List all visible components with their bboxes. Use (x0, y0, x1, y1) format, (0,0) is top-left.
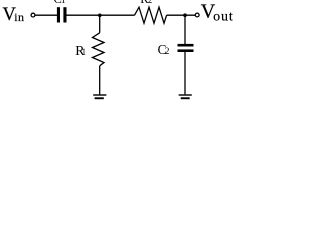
terminal Vin (31, 13, 35, 17)
terminal Vout (195, 13, 199, 17)
wire R2 to Vout (167, 14, 196, 16)
svg-text:2: 2 (165, 46, 170, 56)
resistor R2 (135, 7, 167, 23)
svg-text:1: 1 (82, 47, 87, 57)
wire C2 to ground (184, 52, 186, 94)
wire Vin to C1 (35, 14, 57, 16)
wire R1 to ground (99, 66, 101, 95)
svg-text:1: 1 (61, 0, 66, 5)
ground (left) (93, 94, 106, 95)
node B junction (183, 13, 187, 17)
svg-text:in: in (14, 10, 24, 24)
wire C1 to R2 (67, 14, 135, 16)
ground (right) (179, 94, 192, 95)
resistor R1 (93, 33, 105, 66)
svg-text:2: 2 (148, 0, 153, 5)
svg-text:out: out (213, 9, 234, 24)
capacitor C2 (178, 44, 194, 47)
capacitor C1 (57, 7, 60, 22)
wire node A down to R1 (99, 15, 101, 33)
wire node B down to C2 (184, 15, 186, 44)
node A junction (98, 14, 102, 18)
